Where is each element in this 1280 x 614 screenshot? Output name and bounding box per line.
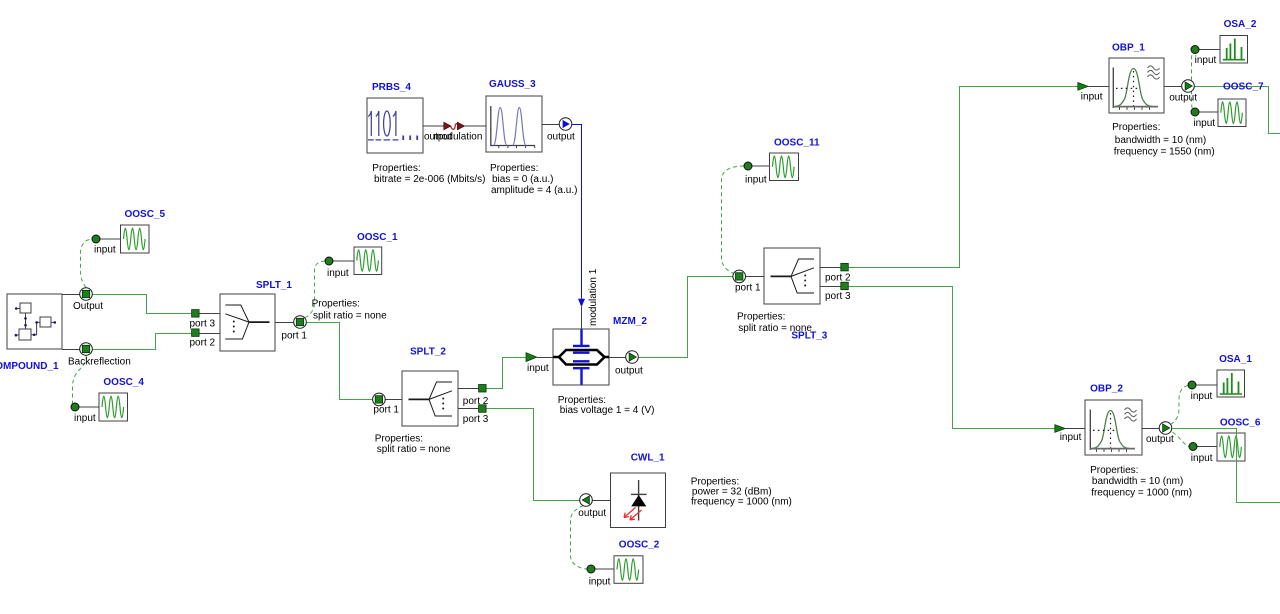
svg-text:input: input [1195,55,1217,66]
wire SPLT_1 port 1 to SPLT_2 port 1 [307,323,373,400]
block COMPOUND_1 [7,294,80,350]
port 2 (SPLT_3) [841,263,849,271]
wire MZM_2 output to SPLT_3 port 1 [639,277,733,358]
dashed probe wire SPLT_1 port 1 to OOSC_1 input [303,261,326,319]
svg-text:bandwidth = 10 (nm): bandwidth = 10 (nm) [1092,476,1183,487]
probe OOSC_11 [744,138,820,186]
svg-text:Properties:: Properties: [737,311,785,322]
svg-text:output: output [547,132,575,143]
svg-text:input: input [589,576,611,587]
wire OBP_1 output to right edge [1195,87,1280,134]
analyzer OSA_1 [1188,354,1252,402]
svg-text:Properties:: Properties: [375,434,423,445]
port 2 (SPLT_2) [479,385,487,393]
svg-text:OOSC_2: OOSC_2 [619,540,660,551]
wire SPLT_3 port 2 to OBP_1 input [848,87,1078,268]
svg-text:output: output [578,508,606,519]
svg-text:OSA_2: OSA_2 [1224,19,1257,30]
svg-text:Properties:: Properties: [312,298,360,309]
svg-text:GAUSS_3: GAUSS_3 [489,79,536,90]
svg-text:OOSC_6: OOSC_6 [1220,418,1261,429]
svg-text:input: input [1193,118,1215,129]
svg-text:OOSC_11: OOSC_11 [774,138,820,149]
svg-text:input: input [327,268,349,279]
svg-text:bias voltage 1 = 4 (V): bias voltage 1 = 4 (V) [560,405,655,416]
svg-text:bias = 0 (a.u.): bias = 0 (a.u.) [492,174,553,185]
svg-text:Backreflection: Backreflection [68,357,131,368]
block GAUSS_3 [486,79,577,196]
svg-text:OOSC_5: OOSC_5 [125,209,166,220]
filter OBP_2 [1055,384,1192,499]
port Backreflection (COMPOUND_1) [68,343,131,368]
svg-text:OBP_2: OBP_2 [1090,384,1123,395]
port output (OBP_2) [1142,428,1159,430]
filter OBP_1 [1078,43,1215,158]
port input (OBP_1) [1078,83,1089,91]
svg-text:input: input [745,175,767,186]
svg-text:OOSC_4: OOSC_4 [103,377,144,388]
modulator MZM_2 [526,268,654,416]
dashed probe wire OBP_2 output to OOSC_6 input [1173,432,1190,447]
svg-text:OOSC_1: OOSC_1 [357,232,398,243]
svg-text:bandwidth = 10 (nm): bandwidth = 10 (nm) [1115,135,1206,146]
svg-text:PRBS_4: PRBS_4 [372,82,411,93]
svg-text:frequency = 1000 (nm): frequency = 1000 (nm) [691,497,792,508]
svg-text:port 3: port 3 [825,291,851,302]
svg-text:output: output [1169,93,1197,104]
svg-text:input: input [527,363,549,374]
svg-text:Properties:: Properties: [372,163,420,174]
svg-text:SPLT_1: SPLT_1 [256,280,292,291]
svg-text:port 1: port 1 [281,331,307,342]
svg-text:frequency = 1550 (nm): frequency = 1550 (nm) [1114,147,1215,158]
svg-text:OOSC_7: OOSC_7 [1223,82,1264,93]
svg-text:input: input [1191,453,1213,464]
probe OOSC_1 [325,232,398,279]
svg-text:input: input [1081,92,1103,103]
splitter SPLT_2 [373,346,489,455]
svg-text:modulation: modulation [434,132,483,143]
port Output (COMPOUND_1) [73,288,103,312]
port 1 (SPLT_3) [733,270,746,283]
port input (OBP_2) [1055,425,1066,433]
port modulation 1 (MZM_2) [578,299,585,308]
svg-text:amplitude = 4 (a.u.): amplitude = 4 (a.u.) [491,185,577,196]
port output (OBP_1) [1164,86,1182,88]
dashed probe wire COMPOUND_1 Backreflection to OOSC_4 input [71,356,86,408]
probe OOSC_7 [1191,82,1264,130]
svg-text:Properties:: Properties: [1112,122,1160,133]
wire COMPOUND_1 Output to SPLT_1 port 3 [86,295,192,314]
svg-text:port 2: port 2 [190,338,216,349]
svg-text:split ratio = none: split ratio = none [377,444,451,455]
svg-text:COMPOUND_1: COMPOUND_1 [0,361,59,372]
port output (CWL_1) [592,500,610,502]
port 2 (SPLT_1) [192,329,200,337]
svg-text:Output: Output [73,301,103,312]
wire SPLT_2 port 3 to CWL_1 output [486,409,580,501]
svg-text:Properties:: Properties: [1090,465,1138,476]
svg-text:modulation 1: modulation 1 [588,268,599,326]
port output (MZM_2) [609,357,626,359]
svg-text:input: input [94,245,116,256]
probe OOSC_6 [1189,418,1261,465]
svg-text:OBP_1: OBP_1 [1112,43,1145,54]
wire SPLT_3 port 3 to OBP_2 input [848,287,1055,429]
svg-text:SPLT_2: SPLT_2 [410,346,446,357]
svg-text:SPLT_3: SPLT_3 [791,331,827,342]
svg-text:Properties:: Properties: [490,163,538,174]
wire GAUSS_3 output to MZM_2 modulation (blue) [572,125,582,299]
dashed probe wire OBP_2 output to OSA_1 input [1171,385,1189,424]
svg-text:input: input [74,413,96,424]
analyzer OSA_2 [1191,19,1257,66]
svg-text:input: input [1060,432,1082,443]
svg-text:frequency = 1000 (nm): frequency = 1000 (nm) [1091,488,1192,499]
svg-text:port 3: port 3 [190,319,216,330]
port output (PRBS_4, electrical) [444,122,451,130]
wire SPLT_2 port 2 to MZM_2 input [486,358,527,389]
svg-text:CWL_1: CWL_1 [631,453,665,464]
port output (GAUSS_3) [559,118,572,131]
port 3 (SPLT_3) [841,282,849,290]
port 1 (SPLT_2) [373,393,386,406]
wire OBP_2 output to right edge [1172,429,1280,503]
svg-text:input: input [1191,391,1213,402]
svg-text:bitrate = 2e-006 (Mbits/s): bitrate = 2e-006 (Mbits/s) [374,174,485,185]
svg-text:split ratio = none: split ratio = none [313,311,387,322]
dashed probe wire COMPOUND_1 Output to OOSC_5 input [81,239,92,288]
dashed probe wire SPLT_3 port 1 to OOSC_11 input [722,166,745,274]
port modulation (GAUSS_3 input, electrical) [457,122,464,130]
port 3 (SPLT_1) [192,310,200,318]
port input (MZM_2) [526,353,537,362]
svg-text:output: output [615,365,643,376]
probe OOSC_2 [587,540,660,588]
probe OOSC_4 [71,377,144,424]
svg-text:port 1: port 1 [373,404,399,415]
probe OOSC_5 [92,209,166,256]
splitter SPLT_1 [190,280,388,351]
dashed probe wire CWL_1 output to OOSC_2 input [571,506,588,570]
splitter SPLT_3 [733,248,851,342]
dashed probe wire OBP_1 output to OSA_2 and OOSC_7 inputs [1192,50,1196,113]
block PRBS_4 [367,82,486,185]
laser CWL_1 [578,453,792,528]
svg-text:port 1: port 1 [735,283,761,294]
port 3 (SPLT_2) [479,405,487,413]
wire COMPOUND_1 Backreflection to SPLT_1 port 2 [86,334,192,350]
svg-text:port 3: port 3 [463,414,489,425]
svg-text:OSA_1: OSA_1 [1219,354,1252,365]
svg-text:MZM_2: MZM_2 [613,316,647,327]
port 1 (SPLT_1) [294,316,307,329]
svg-text:output: output [1146,434,1174,445]
